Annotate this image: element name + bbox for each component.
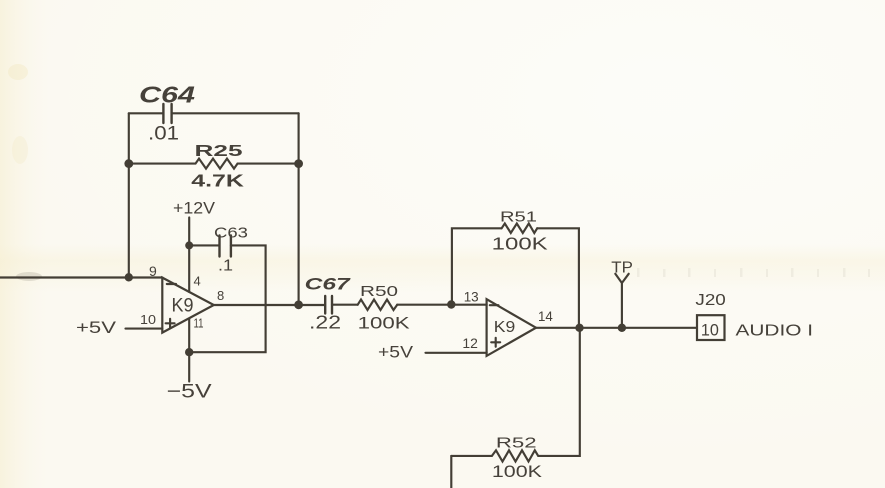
wire +5V to pin 10 — [126, 328, 163, 330]
wire pin 11 to -5V — [188, 319, 190, 382]
node U1 output/feedback — [294, 300, 303, 309]
svg-text:K9: K9 — [172, 296, 194, 317]
svg-text:9: 9 — [149, 263, 157, 279]
node TP tap — [618, 324, 626, 332]
wire C63 branch right — [193, 245, 266, 352]
wire R52 return — [450, 456, 452, 488]
node pin13/R51 junction — [447, 300, 455, 308]
svg-text:−5V: −5V — [167, 381, 212, 403]
node output/R52 junction — [575, 324, 583, 332]
U1 non-inverting input plus — [166, 319, 175, 328]
wire R51 right leg — [537, 228, 579, 327]
svg-text:.1: .1 — [218, 258, 233, 275]
resistor R50 — [358, 300, 398, 311]
svg-text:C67: C67 — [305, 275, 352, 294]
resistor R51 — [502, 224, 538, 234]
node V- junction — [185, 348, 193, 356]
svg-text:10: 10 — [701, 322, 719, 340]
wire right feedback leg — [298, 113, 300, 304]
capacitor C63 — [220, 236, 231, 257]
wire R51 left leg — [452, 228, 502, 304]
svg-text:R52: R52 — [496, 435, 537, 452]
svg-text:R51: R51 — [500, 209, 537, 226]
op-amp U2 — [487, 299, 536, 356]
node C63 tap — [185, 241, 193, 249]
wire C63 branch left — [189, 244, 219, 246]
wire U2 output to J20 — [536, 327, 697, 329]
svg-text:AUDIO I: AUDIO I — [736, 323, 814, 340]
svg-text:100K: 100K — [492, 234, 548, 254]
test point TP — [615, 274, 628, 328]
U2 non-inverting input plus — [491, 338, 500, 347]
svg-text:4: 4 — [194, 274, 201, 289]
wire +5V to pin 12 — [426, 352, 487, 354]
svg-text:8: 8 — [217, 288, 224, 303]
wire C64 branch left — [129, 112, 163, 114]
svg-text:+12V: +12V — [173, 199, 216, 218]
wire +12V to pin 4 — [188, 218, 190, 293]
node feedback right — [294, 159, 303, 168]
svg-text:13: 13 — [464, 289, 479, 305]
svg-text:K9: K9 — [494, 319, 516, 336]
capacitor C64 — [163, 104, 171, 123]
svg-text:.01: .01 — [148, 124, 179, 145]
svg-text:+5V: +5V — [378, 343, 414, 362]
svg-text:C63: C63 — [214, 225, 248, 242]
svg-text:TP: TP — [611, 260, 633, 277]
capacitor C67 — [325, 296, 332, 314]
resistor R25 — [129, 159, 299, 169]
connector J20 pin box — [697, 315, 725, 340]
op-amp U1 — [162, 278, 214, 333]
wire input to pin 9 — [0, 276, 162, 278]
svg-text:J20: J20 — [695, 292, 726, 309]
svg-text:11: 11 — [194, 316, 204, 331]
resistor R52 — [451, 328, 580, 462]
wire C64 branch right — [172, 112, 299, 114]
wire R50 to pin 13 — [397, 304, 486, 306]
svg-text:R50: R50 — [360, 283, 398, 300]
node feedback left — [124, 159, 133, 168]
wire left feedback leg — [128, 113, 130, 277]
svg-text:R25: R25 — [195, 143, 243, 160]
svg-text:4.7K: 4.7K — [191, 171, 244, 191]
wire C67 to R50 — [332, 304, 358, 306]
wire U1 output — [214, 304, 325, 306]
svg-text:100K: 100K — [358, 314, 411, 333]
svg-text:+5V: +5V — [76, 318, 117, 337]
svg-text:.22: .22 — [309, 313, 341, 333]
svg-text:12: 12 — [462, 335, 478, 351]
svg-text:14: 14 — [538, 308, 553, 324]
svg-text:10: 10 — [140, 312, 156, 327]
svg-text:C64: C64 — [139, 82, 195, 108]
U2 inverting input minus — [490, 304, 499, 306]
node input/feedback junction — [125, 273, 133, 281]
svg-text:100K: 100K — [492, 462, 543, 481]
U1 inverting input minus — [167, 283, 176, 285]
